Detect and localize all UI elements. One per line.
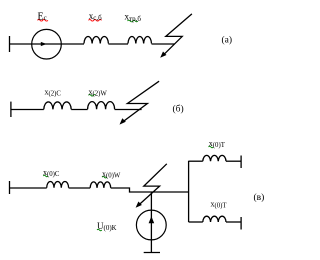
svg-text:(а): (а) (222, 35, 233, 46)
svg-text:(в): (в) (254, 192, 265, 203)
svg-text:xс,б: xс,б (89, 11, 102, 22)
svg-text:x(0)С: x(0)С (43, 168, 60, 178)
svg-text:x(2)С: x(2)С (45, 88, 62, 98)
svg-text:xтр,б: xтр,б (125, 12, 142, 23)
svg-text:(б): (б) (173, 104, 184, 115)
svg-text:x(0)Т: x(0)Т (209, 139, 226, 149)
svg-text:x(0)Т: x(0)Т (211, 200, 228, 210)
svg-text:Eс: Eс (38, 11, 47, 22)
svg-text:U(0)К: U(0)К (97, 221, 117, 232)
svg-text:x(2)W: x(2)W (89, 88, 108, 98)
svg-text:x(0)W: x(0)W (102, 169, 121, 179)
